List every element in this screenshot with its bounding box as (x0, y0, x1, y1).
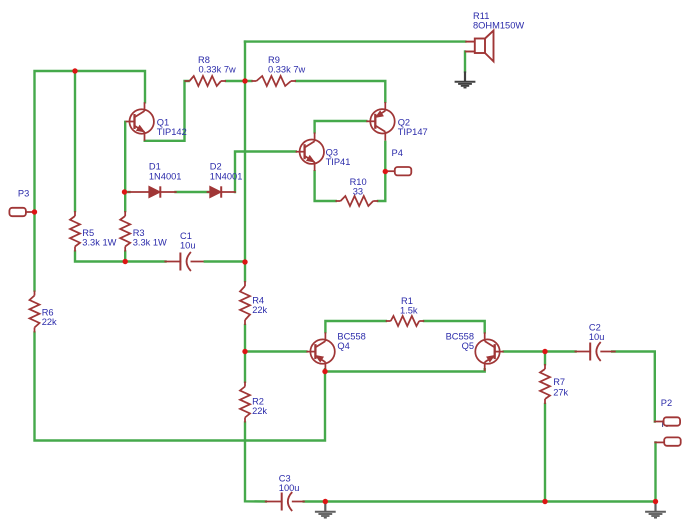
svg-text:3.3k 1W: 3.3k 1W (133, 238, 167, 248)
wire Q4 emitter to Q5 emitter bus (325, 369, 485, 371)
resistor R10 33 (336, 200, 341, 202)
svg-text:R6: R6 (42, 308, 54, 318)
svg-text:BC558: BC558 (446, 332, 474, 342)
svg-text:22k: 22k (252, 406, 267, 416)
wire bottom ground rail C3 right to P2 ground node (304, 500, 656, 502)
junction C3 right / ground (323, 499, 328, 504)
junction R8/R9 node (242, 78, 247, 83)
wire speaker R11 bottom pin to ground (464, 52, 466, 72)
svg-text:P3: P3 (18, 189, 29, 199)
connector P2 pin 2 lead (655, 441, 664, 443)
svg-text:10u: 10u (180, 241, 196, 251)
svg-text:27k: 27k (553, 388, 568, 398)
svg-text:TIP147: TIP147 (398, 127, 428, 137)
svg-text:22k: 22k (252, 305, 267, 315)
svg-text:1N4001: 1N4001 (149, 172, 182, 182)
svg-text:33: 33 (353, 187, 363, 197)
svg-text:0.33k 7w: 0.33k 7w (199, 65, 236, 75)
capacitor C1 left lead (165, 261, 180, 263)
wire R7 node down to R7 top (544, 352, 546, 365)
wire D2 cathode up to Q3 base (235, 152, 296, 193)
connector P2 pin 1 lead (655, 421, 664, 423)
wire top-left rail from R6 up, across to Q1 collector (35, 71, 146, 291)
svg-text:0.33k 7w: 0.33k 7w (268, 65, 305, 75)
wire ground node up to P2 pin 2 (654, 442, 656, 501)
connector P3 lead (26, 211, 35, 213)
svg-text:D2: D2 (210, 162, 222, 172)
svg-text:R3: R3 (133, 228, 145, 238)
junction P3 node (32, 209, 37, 214)
wire R7 bottom down to ground rail (544, 404, 546, 502)
resistor R5 3.3k 1W (74, 211, 76, 216)
svg-text:R9: R9 (268, 55, 280, 65)
svg-text:Q2: Q2 (398, 118, 410, 128)
resistor R8 0.33k 7w (185, 80, 190, 82)
svg-text:R11: R11 (473, 11, 489, 21)
resistor R3 3.3k 1W (124, 211, 126, 216)
svg-text:R2: R2 (252, 397, 264, 407)
svg-text:Q5: Q5 (462, 341, 474, 351)
capacitor C2 left lead (575, 351, 590, 353)
svg-text:D1: D1 (149, 162, 161, 172)
svg-text:P4: P4 (392, 148, 403, 158)
svg-text:100u: 100u (279, 483, 300, 493)
diode D2 cathode lead (221, 191, 235, 193)
connector P4 body (395, 167, 412, 175)
speaker R11 8OHM150W (465, 31, 494, 62)
wire left rail: R6 bottom down, bottom-left bus to Q4 emitter node (35, 333, 326, 441)
capacitor C3 left lead (266, 501, 282, 503)
svg-text:BC558: BC558 (337, 332, 365, 342)
capacitor C1 10u (179, 253, 181, 271)
junction R3 bottom / bias rail (123, 259, 128, 264)
wire R3 bottom to bias rail (124, 252, 126, 262)
svg-text:Q4: Q4 (337, 341, 349, 351)
capacitor C3 right lead (293, 501, 304, 503)
junction R4 / R2 / Q4 base (242, 349, 247, 354)
junction P4 node (383, 169, 388, 174)
wire V+ rail down to R5 (74, 71, 76, 211)
junction C1 right / center bus (242, 259, 247, 264)
junction Q5 base / R7 / C2 (542, 349, 547, 354)
wire D1 cathode to D2 anode (176, 191, 209, 193)
svg-text:R10: R10 (350, 177, 367, 187)
junction Q4 emitter node (322, 369, 327, 374)
diode D1 1N4001 anode lead (129, 191, 149, 193)
svg-text:10u: 10u (589, 332, 605, 342)
svg-text:Q1: Q1 (157, 118, 169, 128)
wire Q4 collector up and right to R1 left (325, 321, 386, 332)
svg-text:R4: R4 (252, 296, 264, 306)
connector P3 (9, 208, 26, 216)
junction P2 ground node (653, 499, 658, 504)
svg-text:TIP142: TIP142 (157, 127, 187, 137)
junction node A / D1 anode (122, 189, 127, 194)
diode D1 cathode lead (160, 191, 176, 193)
wire R9 right to Q2 emitter pin (296, 81, 385, 102)
svg-text:1N4001: 1N4001 (210, 172, 243, 182)
ground at P2 node (654, 502, 656, 512)
wire R1 right to Q5 collector (424, 321, 485, 332)
transistor Q5 BC558 PNP mirrored (475, 339, 499, 363)
resistor R9 0.33k 7w (251, 80, 256, 82)
connector P4 lead (385, 170, 395, 172)
transistor Q4 BC558 PNP (310, 339, 334, 363)
junction R7 bottom / ground rail (542, 499, 547, 504)
ground at C3 node (324, 502, 326, 512)
connector P2 pin 2 (664, 437, 681, 445)
diode D2 1N4001 (210, 186, 221, 197)
resistor R1 1.5k (386, 320, 391, 322)
capacitor C2 10u (589, 343, 591, 361)
wire R10 right up through P4 node to Q2 collector (378, 142, 385, 201)
svg-text:R8: R8 (198, 55, 210, 65)
wire center bus: top rail down through R8/R9 node and C1 node to R4 top (244, 42, 246, 281)
wire Q3 collector up and right to Q2 base (315, 121, 367, 132)
connector P2 pin 1 (664, 417, 681, 425)
junction top rail / R5 branch (72, 68, 77, 73)
wire Q1 emitter right and up to R8 left (145, 81, 189, 141)
transistor Q1 TIP142 NPN darlington (130, 109, 154, 133)
wire C1 right to center bus (205, 260, 245, 262)
svg-text:R1: R1 (401, 296, 413, 306)
diode D1 1N4001 (149, 186, 160, 197)
svg-text:P2: P2 (661, 398, 672, 408)
transistor Q2 TIP147 PNP darlington (370, 109, 394, 133)
svg-text:1.5k: 1.5k (400, 306, 418, 316)
svg-text:Q3: Q3 (326, 148, 338, 158)
wire Q1 base down to node A and R3 top (124, 122, 126, 211)
svg-text:C2: C2 (589, 323, 601, 333)
wire Q3 emitter down to R10 left (315, 171, 336, 201)
resistor R6 22k (34, 291, 36, 296)
svg-text:3.3k 1W: 3.3k 1W (82, 238, 116, 248)
wire R8 right to R9 left through node (226, 80, 251, 82)
ground below speaker R11 (464, 71, 466, 81)
svg-text:TIP41: TIP41 (326, 157, 351, 167)
capacitor C2 right lead (601, 351, 615, 353)
svg-text:R7: R7 (553, 377, 565, 387)
wire node A to D1 anode (125, 191, 130, 193)
wire R2 bottom down to C3 left (245, 423, 266, 502)
capacitor C3 100u (281, 493, 283, 511)
wire C2 right down to P2 pin 1 (612, 352, 655, 422)
transistor Q3 TIP41 NPN (300, 140, 324, 164)
svg-text:C3: C3 (279, 474, 291, 484)
wire R4 bottom to Q4-base node to R2 top (244, 325, 246, 382)
resistor R4 22k (244, 281, 246, 286)
wire R5 bottom to C1 left, via R3-bottom node (75, 252, 166, 262)
wire output rail to speaker R11 top pin (245, 40, 465, 42)
wire Q5 base to R7/C2 node to C2 left (504, 350, 576, 352)
resistor R7 27k (544, 364, 546, 369)
wire Q4 base node to Q4 base pin (248, 350, 306, 352)
capacitor C1 right lead (191, 261, 204, 263)
svg-text:22k: 22k (42, 317, 57, 327)
svg-text:C1: C1 (180, 231, 192, 241)
diode D2 1N4001 anode lead (208, 191, 210, 193)
svg-text:R5: R5 (82, 228, 94, 238)
resistor R2 22k (244, 382, 246, 387)
svg-text:8OHM150W: 8OHM150W (473, 21, 524, 31)
